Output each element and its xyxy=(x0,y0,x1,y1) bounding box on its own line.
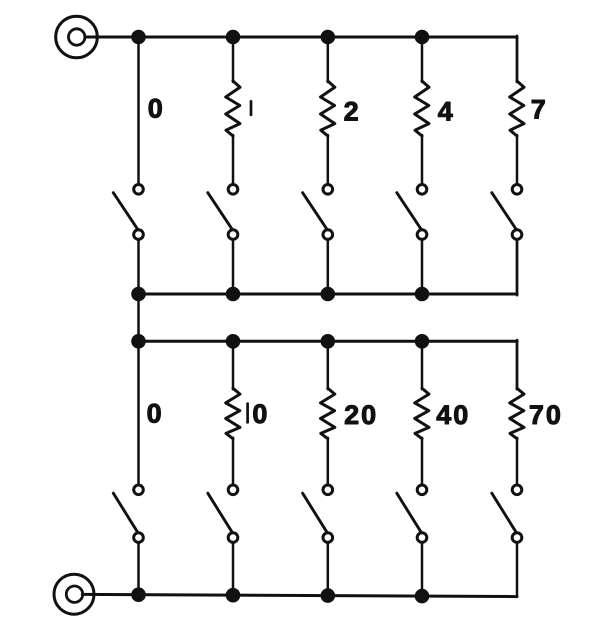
wire: switch S7 to decade-1 output bus xyxy=(516,239,519,294)
switch S70 (decade 2, selects R70): top contact xyxy=(512,485,522,495)
wire: top lead of R4 (4 ohm) xyxy=(421,37,424,82)
wire: switch S0 to decade-1 output bus xyxy=(137,239,140,294)
node: decade-1 output bus junction, branch 0 xyxy=(131,287,146,302)
wire: bottom lead of R2 (2 ohm) to switch contact xyxy=(327,135,330,185)
switch S10 (decade 2, selects R10): blade (open) xyxy=(208,493,233,533)
switch S10 (decade 2, selects R10): bottom contact xyxy=(228,533,238,543)
switch S2 (decade 1, selects R2): blade (open) xyxy=(303,193,328,230)
switch S0 (decade 1, position 0): top contact xyxy=(134,185,144,195)
label: value 70 (decade 2) xyxy=(529,400,563,430)
wire: switch S70 to bottom bus xyxy=(516,542,519,596)
switch S2 (decade 1, selects R2): top contact xyxy=(323,185,333,195)
wire: bottom lead of R7 (7 ohm) to switch contact xyxy=(516,135,519,185)
svg-text:4: 4 xyxy=(438,96,453,126)
node: decade-2 input bus junction, branch 20 xyxy=(321,334,336,349)
switch S2 (decade 1, selects R2): bottom contact xyxy=(323,230,333,240)
node: bottom bus junction, branch 20 xyxy=(321,588,336,603)
label: value 2 (decade 1) xyxy=(344,96,359,126)
switch S7 (decade 1, selects R7): bottom contact xyxy=(512,230,522,240)
wire: branch-0 drop (zero-ohm link, decade 2) xyxy=(137,341,140,485)
svg-text:2: 2 xyxy=(344,96,359,126)
wire: top lead of R20 (20 ohm) xyxy=(327,341,330,389)
wire: decade-1 output bus xyxy=(139,293,518,296)
label: value 0 (decade 2) xyxy=(147,398,162,428)
switch S70 (decade 2, selects R70): blade (open) xyxy=(492,493,517,533)
switch S4 (decade 1, selects R4): blade (open) xyxy=(397,193,422,230)
node: top bus junction, branch 2 xyxy=(321,30,336,45)
svg-text:0: 0 xyxy=(252,399,267,429)
switch S0b (decade 2, position 0): blade (open) xyxy=(113,493,138,533)
resistor R20 (20 ohm) xyxy=(321,388,335,438)
wire: switch S0b to bottom bus xyxy=(137,542,140,594)
wire: bottom lead of R1 (1 ohm) to switch contact xyxy=(232,135,235,185)
label: value 1 (decade 1) xyxy=(250,101,253,115)
switch S20 (decade 2, selects R20): top contact xyxy=(323,485,333,495)
wire: top lead of R1 (1 ohm) xyxy=(232,37,235,82)
label: value 4 (decade 1) xyxy=(438,96,453,126)
label: value 10 (decade 2) xyxy=(248,399,268,429)
switch S0b (decade 2, position 0): top contact xyxy=(134,485,144,495)
resistor R70 (70 ohm) xyxy=(510,388,524,438)
wire: top lead of R2 (2 ohm) xyxy=(327,37,330,82)
switch S0b (decade 2, position 0): bottom contact xyxy=(134,533,144,543)
wire: right column decade 1 (top bus corner down to R7) xyxy=(516,36,519,82)
terminal T2 (bottom output binding post) xyxy=(54,574,94,614)
switch S1 (decade 1, selects R1): top contact xyxy=(228,185,238,195)
wire: top lead of R7 (7 ohm) xyxy=(516,37,519,82)
wire: right column decade 2 (input bus corner down to R70) xyxy=(516,340,519,389)
node: bottom bus junction, branch 40 xyxy=(415,589,430,604)
wire: bottom lead of R10 (10 ohm) to switch contact xyxy=(232,438,235,485)
node: decade-2 input bus junction, branch 40 xyxy=(415,334,430,349)
switch S40 (decade 2, selects R40): bottom contact xyxy=(417,533,427,543)
wire: switch S4 to decade-1 output bus xyxy=(421,239,424,294)
switch S40 (decade 2, selects R40): top contact xyxy=(417,485,427,495)
wire: top bus from T1 to right corner xyxy=(85,36,517,39)
wire: branch-0 drop (zero-ohm link, decade 1) xyxy=(137,37,140,185)
svg-text:0: 0 xyxy=(147,398,162,428)
node: decade-2 input bus junction, branch 10 xyxy=(226,334,241,349)
resistor R1 (1 ohm) xyxy=(226,81,240,136)
svg-text:7: 7 xyxy=(531,95,546,125)
switch S20 (decade 2, selects R20): bottom contact xyxy=(323,533,333,543)
node: decade-1 output bus junction, branch 2 xyxy=(321,287,336,302)
wire: decade-2 input bus xyxy=(139,340,518,343)
node: decade-1 output bus junction, branch 4 xyxy=(415,287,430,302)
switch S7 (decade 1, selects R7): blade (open) xyxy=(492,193,517,230)
wire: top lead of R70 (70 ohm) xyxy=(516,341,519,389)
wire: switch S20 to bottom bus xyxy=(327,542,330,595)
svg-text:70: 70 xyxy=(529,400,563,430)
switch S1 (decade 1, selects R1): blade (open) xyxy=(208,193,233,230)
switch S0 (decade 1, position 0): blade (open) xyxy=(113,193,138,230)
switch S4 (decade 1, selects R4): bottom contact xyxy=(417,230,427,240)
wire: switch S10 to bottom bus xyxy=(232,542,235,595)
label: value 40 (decade 2) xyxy=(436,400,470,430)
node: bottom bus junction, branch 00 xyxy=(131,587,146,602)
wire: bottom lead of R40 (40 ohm) to switch contact xyxy=(421,438,424,485)
switch S0 (decade 1, position 0): bottom contact xyxy=(134,230,144,240)
node: top bus junction, branch 0 xyxy=(131,30,146,45)
wire: top lead of R40 (40 ohm) xyxy=(421,341,424,389)
switch S7 (decade 1, selects R7): top contact xyxy=(512,185,522,195)
wire: right column decade 1 (switch S7 down to output bus corner) xyxy=(516,239,519,295)
wire: bottom lead of R20 (20 ohm) to switch contact xyxy=(327,438,330,485)
switch S10 (decade 2, selects R10): top contact xyxy=(228,485,238,495)
resistor R2 (2 ohm) xyxy=(321,81,335,136)
svg-text:0: 0 xyxy=(148,93,163,123)
node: decade-2 input bus junction, branch 00 xyxy=(131,334,146,349)
switch S20 (decade 2, selects R20): blade (open) xyxy=(303,493,328,533)
node: bottom bus junction, branch 10 xyxy=(226,588,241,603)
svg-text:40: 40 xyxy=(436,400,470,430)
resistor R4 (4 ohm) xyxy=(415,81,429,136)
switch S40 (decade 2, selects R40): blade (open) xyxy=(397,493,422,533)
resistor R40 (40 ohm) xyxy=(415,388,429,438)
node: top bus junction, branch 4 xyxy=(415,30,430,45)
wire: bottom lead of R70 (70 ohm) to switch contact xyxy=(516,438,519,485)
svg-text:20: 20 xyxy=(344,400,378,430)
label: value 0 (decade 1) xyxy=(148,93,163,123)
terminal T1 (top input binding post) xyxy=(56,16,98,58)
resistor R10 (10 ohm) xyxy=(226,388,240,438)
resistor R7 (7 ohm) xyxy=(510,81,524,136)
wire: switch S1 to decade-1 output bus xyxy=(232,239,235,294)
wire: switch S2 to decade-1 output bus xyxy=(327,239,330,294)
node: top bus junction, branch 1 xyxy=(226,30,241,45)
wire: switch S40 to bottom bus xyxy=(421,542,424,596)
node: decade-1 output bus junction, branch 1 xyxy=(226,287,241,302)
label: value 7 (decade 1) xyxy=(531,95,546,125)
wire: bottom lead of R4 (4 ohm) to switch contact xyxy=(421,135,424,185)
label: value 20 (decade 2) xyxy=(344,400,378,430)
wire: top lead of R10 (10 ohm) xyxy=(232,341,235,389)
switch S1 (decade 1, selects R1): bottom contact xyxy=(228,230,238,240)
switch S4 (decade 1, selects R4): top contact xyxy=(417,185,427,195)
wire: bottom bus from T2 to right corner xyxy=(82,594,517,596)
switch S70 (decade 2, selects R70): bottom contact xyxy=(512,533,522,543)
wire: series link between decade 1 and decade 2 xyxy=(137,294,140,341)
